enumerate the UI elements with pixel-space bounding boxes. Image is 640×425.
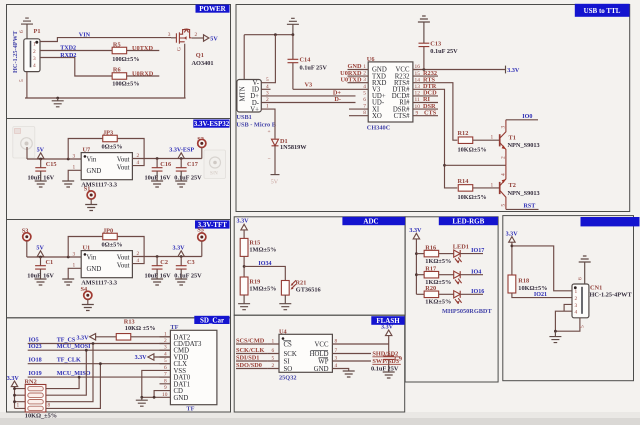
svg-text:HOLD: HOLD	[310, 351, 329, 358]
capacitor C13	[418, 16, 441, 70]
svg-text:Vin: Vin	[87, 157, 97, 164]
wire VCC to 3.3V	[413, 69, 506, 71]
svg-text:10KΩ ±5%: 10KΩ ±5%	[125, 325, 156, 332]
svg-text:MTN: MTN	[240, 86, 247, 101]
power port 3.3V bar	[506, 66, 520, 75]
svg-text:GND: GND	[174, 395, 189, 402]
svg-text:15: 15	[415, 71, 421, 77]
svg-text:R18: R18	[518, 277, 529, 284]
svg-text:R14: R14	[458, 178, 470, 185]
svg-text:3: 3	[501, 126, 507, 129]
pad S1	[84, 186, 95, 205]
wire Q1 out to 5V	[192, 37, 204, 39]
C1 value	[27, 273, 54, 280]
svg-text:5V: 5V	[210, 37, 218, 43]
svg-text:0.1uF 25V: 0.1uF 25V	[371, 365, 399, 372]
power 3.3V arrow	[173, 245, 186, 256]
svg-text:U7: U7	[83, 147, 91, 154]
section box POWER	[7, 5, 231, 119]
resistor R5	[112, 41, 127, 53]
power 3.3V-ESP arrow	[169, 147, 194, 158]
svg-text:9: 9	[416, 110, 419, 116]
svg-text:C14: C14	[300, 57, 312, 64]
LED blue	[439, 291, 483, 304]
svg-text:WP: WP	[318, 358, 328, 365]
svg-text:SDI/SD1: SDI/SD1	[236, 355, 259, 362]
junction CD/GND	[153, 396, 156, 399]
wire R18 to IO21 row	[512, 293, 572, 298]
svg-text:6: 6	[363, 97, 366, 103]
svg-text:R5: R5	[113, 41, 121, 48]
svg-text:U4: U4	[279, 328, 288, 335]
svg-text:R6: R6	[113, 67, 121, 74]
ground under C3	[175, 279, 187, 285]
power 5V arrow	[204, 35, 219, 43]
capacitor C16	[152, 159, 171, 182]
faded pad photo left	[13, 127, 35, 159]
svg-text:−: −	[268, 156, 271, 162]
svg-text:USB - Micro B: USB - Micro B	[236, 121, 276, 128]
svg-text:TF_CLK: TF_CLK	[57, 358, 81, 364]
svg-text:3.3V: 3.3V	[409, 228, 422, 234]
svg-text:4: 4	[164, 352, 167, 358]
rail wire	[27, 256, 81, 258]
svg-text:GT36516: GT36516	[296, 287, 321, 294]
svg-text:R20: R20	[425, 285, 436, 292]
resistor R21 photoresistor	[281, 280, 296, 295]
svg-text:U6: U6	[367, 56, 375, 63]
svg-text:GND: GND	[314, 366, 329, 373]
junction 3.3V	[511, 245, 514, 248]
ground under S4	[82, 305, 94, 311]
C15 value	[28, 175, 55, 182]
title bar SD_Car	[194, 316, 229, 325]
pin1 stub + number	[68, 165, 81, 181]
svg-text:MHP5050RGBDT: MHP5050RGBDT	[442, 308, 492, 315]
regulator U1	[81, 251, 132, 278]
svg-text:3: 3	[73, 252, 76, 258]
svg-text:10KΩ±5%: 10KΩ±5%	[518, 285, 547, 292]
RN2 left wires	[15, 389, 26, 409]
svg-text:5: 5	[501, 204, 507, 207]
wire R13 to pin1	[131, 336, 171, 338]
port SWP/SD3	[344, 358, 401, 365]
svg-text:R21: R21	[296, 279, 307, 286]
wire R12 to T1 base	[473, 139, 500, 141]
svg-text:CTS: CTS	[424, 109, 437, 116]
wire top rail	[244, 35, 293, 80]
capacitor C1	[35, 257, 53, 279]
svg-text:4: 4	[575, 310, 578, 316]
junction R17	[415, 273, 418, 276]
pad S2	[197, 136, 206, 159]
svg-text:R17: R17	[425, 266, 436, 273]
wire 3.3V to pin1	[512, 246, 572, 291]
wire R15 to junction	[243, 256, 245, 277]
title bar ADC	[342, 217, 405, 226]
svg-text:1MΩ±5%: 1MΩ±5%	[249, 247, 276, 254]
wire TXD2 pin2 to R5	[40, 50, 112, 52]
power 3.3V left arrow	[76, 334, 95, 342]
svg-text:3.3V: 3.3V	[173, 245, 186, 251]
USB1 pin numbers	[266, 77, 269, 109]
capacitor C17	[176, 159, 198, 182]
pin5 wire	[555, 318, 580, 331]
section box LED-RGB	[405, 217, 498, 382]
svg-text:3: 3	[335, 356, 338, 362]
wire RTS down to R12	[438, 83, 457, 141]
svg-text:3: 3	[168, 32, 171, 38]
section box SD_Car	[7, 318, 231, 412]
power 5V arrow	[36, 246, 44, 257]
capacitor C3	[176, 257, 195, 280]
C2 value	[145, 273, 172, 280]
wire RXD2 pin3 to R6	[40, 58, 112, 77]
svg-text:SCK/CLK: SCK/CLK	[236, 347, 264, 354]
svg-text:2: 2	[137, 251, 140, 257]
svg-text:2: 2	[164, 338, 167, 344]
svg-text:6: 6	[272, 348, 275, 354]
wire MCU_MOSI row	[28, 349, 171, 351]
svg-text:5: 5	[19, 79, 25, 82]
svg-text:1: 1	[33, 41, 36, 47]
title bar LED-RGB	[439, 217, 498, 226]
section box 3.3V-ESP32	[7, 119, 231, 220]
title bar USB to TTL	[575, 4, 630, 17]
svg-text:3.3V-ESP32: 3.3V-ESP32	[194, 120, 230, 128]
chip U4 25Q32	[279, 334, 332, 373]
resistor R14	[458, 178, 473, 191]
svg-text:LED-RGB: LED-RGB	[452, 218, 484, 226]
junction C2	[156, 255, 159, 258]
svg-text:3.3V: 3.3V	[507, 68, 520, 74]
svg-text:5: 5	[363, 90, 366, 96]
ground top of P1	[21, 18, 33, 39]
wire IO34 to R21	[244, 266, 285, 280]
ground top of CN1 pin6	[579, 256, 591, 284]
transistor T1 NPN_S9013	[500, 120, 507, 166]
wire IO0	[506, 119, 538, 121]
capacitor C14	[288, 35, 312, 90]
svg-text:3.3V: 3.3V	[135, 355, 148, 361]
svg-text:5: 5	[272, 356, 275, 362]
junction MOSI pullup	[85, 349, 88, 352]
rail wire	[27, 158, 81, 160]
svg-text:XO: XO	[372, 113, 382, 120]
junction C14	[292, 33, 295, 36]
svg-text:3: 3	[73, 154, 76, 160]
junction VSS/GND	[140, 396, 143, 399]
svg-text:CN1: CN1	[590, 285, 602, 292]
svg-text:2: 2	[137, 153, 140, 159]
pad S4	[81, 286, 92, 304]
output rail	[144, 250, 202, 257]
svg-text:V+: V+	[250, 106, 259, 113]
svg-text:6: 6	[578, 277, 584, 280]
jumper JP0 loop	[68, 237, 144, 258]
svg-text:NPN_S9013: NPN_S9013	[508, 190, 540, 197]
svg-text:5V: 5V	[271, 180, 279, 186]
port SCK/CLK	[236, 347, 267, 354]
svg-text:RXD2: RXD2	[60, 53, 76, 59]
junction C3	[180, 255, 183, 258]
port GND pin1	[348, 63, 362, 70]
wire CD down	[154, 391, 159, 398]
svg-text:2: 2	[363, 71, 366, 77]
LED green	[439, 271, 483, 284]
svg-text:SI: SI	[284, 358, 291, 365]
U4 right pin stubs	[332, 339, 344, 370]
title bar POWER	[196, 5, 230, 14]
svg-text:1: 1	[73, 263, 76, 269]
junction C17	[180, 157, 183, 160]
section box 3.3V-TFT	[7, 220, 231, 318]
svg-text:SCK: SCK	[284, 351, 297, 358]
svg-text:13: 13	[415, 84, 421, 90]
svg-text:1N5819W: 1N5819W	[280, 144, 307, 151]
svg-text:8: 8	[363, 110, 366, 116]
svg-text:IO23: IO23	[29, 344, 42, 350]
title bar right edge	[581, 217, 640, 226]
capacitor C9	[383, 344, 402, 372]
junction CS pullup	[92, 342, 95, 345]
junction C13	[423, 68, 426, 71]
resistor R12	[458, 130, 473, 143]
faded pad photo right	[204, 150, 226, 179]
svg-text:USB1: USB1	[236, 114, 251, 121]
svg-text:2: 2	[272, 363, 275, 369]
svg-text:3: 3	[363, 77, 366, 83]
title bar 3.3V-ESP32	[193, 120, 229, 129]
wire R14 to T2 base	[473, 187, 500, 189]
ground under C15	[35, 181, 47, 187]
ground top left	[287, 18, 299, 34]
svg-text:JP0: JP0	[103, 228, 113, 235]
svg-text:1MΩ±5%: 1MΩ±5%	[249, 285, 276, 292]
resistor R13	[116, 334, 131, 341]
capacitor C15	[35, 159, 56, 181]
svg-text:IO19: IO19	[29, 371, 42, 377]
wire pin3 pin4 to ground	[555, 304, 572, 331]
svg-text:IO4: IO4	[471, 269, 481, 275]
wire bottom rail	[25, 97, 186, 99]
svg-text:3: 3	[33, 56, 36, 62]
power 3.3V arrow RN2	[7, 376, 20, 408]
svg-text:3: 3	[575, 303, 578, 309]
connector CN1	[572, 284, 589, 318]
right pin rows 15..9	[413, 70, 438, 117]
junction IO34	[243, 265, 246, 268]
junction C16	[156, 157, 159, 160]
diode D1	[268, 129, 279, 175]
output rail	[144, 158, 202, 160]
svg-text:1KΩ±5%: 1KΩ±5%	[425, 299, 451, 306]
svg-text:12: 12	[415, 91, 421, 97]
svg-text:POWER: POWER	[199, 5, 226, 13]
svg-text:IO5: IO5	[29, 337, 39, 343]
svg-text:100Ω±5%: 100Ω±5%	[112, 81, 139, 88]
wire V+ down to D1	[261, 109, 275, 139]
wire TF_CLK row	[28, 363, 171, 365]
svg-text:TF_CS: TF_CS	[57, 337, 76, 343]
svg-text:3.3V: 3.3V	[7, 376, 20, 382]
svg-text:3.3V: 3.3V	[381, 324, 394, 330]
resistor R6	[112, 67, 127, 80]
svg-text:2: 2	[33, 49, 36, 55]
svg-text:U0TXD: U0TXD	[341, 76, 362, 83]
junction JP3 branch	[67, 158, 70, 161]
transistor T2 NPN_S9013	[500, 165, 507, 209]
ground under C9	[383, 372, 395, 378]
U4 left pin stubs	[267, 339, 279, 370]
wire Q1 gate down	[184, 44, 186, 98]
svg-text:Vout: Vout	[117, 165, 130, 172]
svg-text:10KΩ_±5%: 10KΩ_±5%	[25, 413, 57, 420]
svg-text:GND: GND	[87, 266, 102, 273]
svg-text:1: 1	[17, 403, 20, 409]
svg-text:SD_Car: SD_Car	[200, 317, 224, 325]
junction R16	[415, 252, 418, 255]
chip U6 CH340C	[368, 62, 413, 122]
ground under S1	[85, 205, 97, 211]
svg-text:U0RXD: U0RXD	[132, 70, 154, 77]
port SHD/SD2	[344, 351, 401, 358]
pin2/pin4 stubs	[132, 251, 144, 264]
U6 right pin stubs/numbers	[413, 64, 420, 70]
port U0RXD pin2	[340, 70, 362, 77]
svg-text:C15: C15	[46, 161, 57, 168]
wire VIN from pin1	[40, 38, 171, 42]
ground under C16	[151, 181, 163, 187]
svg-text:T1: T1	[509, 134, 516, 141]
ground TF	[136, 397, 148, 406]
connector P1	[24, 39, 40, 72]
svg-text:IO21: IO21	[534, 292, 547, 298]
pin1 stub + number	[68, 263, 81, 279]
svg-text:LED1: LED1	[453, 244, 469, 251]
ground under R21	[279, 304, 291, 310]
svg-text:HC-1.25-4PWT: HC-1.25-4PWT	[590, 292, 633, 299]
svg-text:6: 6	[164, 365, 167, 371]
svg-text:2: 2	[501, 156, 507, 159]
power 3.3V left arrow VDD	[135, 354, 171, 361]
wire RST	[506, 208, 539, 210]
wire R5 to U0TXD	[127, 50, 160, 52]
U6 left pin stubs	[349, 64, 368, 116]
svg-text:IO16: IO16	[471, 289, 484, 295]
power 3.3V arrow	[506, 231, 519, 275]
junction DTR node	[443, 164, 446, 167]
wire DTR down	[438, 89, 457, 188]
svg-text:C3: C3	[187, 259, 195, 266]
svg-text:25Q32: 25Q32	[279, 374, 297, 381]
svg-text:4: 4	[33, 63, 36, 69]
resistor JP3	[103, 130, 118, 142]
junction	[39, 256, 42, 259]
svg-text:U1: U1	[83, 245, 91, 252]
svg-text:C2: C2	[160, 259, 168, 266]
svg-text:1: 1	[575, 289, 578, 295]
svg-text:+: +	[268, 129, 271, 135]
svg-text:S/N: S/N	[210, 172, 218, 177]
svg-text:IO0: IO0	[522, 114, 532, 120]
svg-text:Vout: Vout	[117, 157, 130, 164]
port SCS/CMD	[236, 338, 267, 345]
title bar FLASH	[371, 316, 404, 325]
jumper JP3 loop	[68, 139, 144, 160]
svg-text:R12: R12	[458, 130, 469, 137]
svg-text:Q1: Q1	[196, 52, 204, 59]
svg-text:C16: C16	[160, 161, 171, 168]
C16 value	[145, 175, 172, 182]
svg-text:8: 8	[48, 403, 51, 409]
svg-text:HC-1.25-4PWT: HC-1.25-4PWT	[12, 30, 19, 73]
junction ground	[554, 330, 557, 333]
RN2 right wires to signal rows	[46, 344, 101, 409]
svg-text:4: 4	[137, 160, 140, 166]
svg-text:3.3V-ESP: 3.3V-ESP	[169, 147, 194, 153]
wire R6 to U0RXD	[127, 75, 160, 77]
junction	[39, 158, 42, 161]
svg-text:14: 14	[415, 77, 421, 83]
TF pin stubs and numbers	[160, 331, 171, 398]
port SDI/SD1	[236, 355, 267, 362]
svg-text:NPN_S9013: NPN_S9013	[508, 142, 540, 149]
svg-text:RST: RST	[524, 204, 536, 210]
resistor R19	[240, 277, 260, 295]
svg-text:SDO/SD0: SDO/SD0	[236, 362, 262, 369]
power 5V arrow	[37, 148, 45, 159]
regulator U7	[81, 153, 132, 180]
resistor R18	[508, 275, 529, 293]
svg-text:R15: R15	[249, 240, 260, 247]
svg-text:USB to TTL: USB to TTL	[584, 7, 621, 15]
svg-text:0Ω±5%: 0Ω±5%	[102, 143, 123, 150]
svg-text:G: G	[177, 47, 183, 51]
ground under pin1	[62, 279, 74, 285]
power 3.3V arrow	[409, 228, 422, 294]
svg-text:4: 4	[501, 173, 507, 176]
junction	[56, 97, 59, 100]
svg-text:1: 1	[491, 182, 494, 188]
svg-text:SO: SO	[284, 366, 293, 373]
svg-text:TXD2: TXD2	[60, 46, 76, 52]
wire 3.3V to R13	[96, 336, 117, 338]
svg-text:100Ω±5%: 100Ω±5%	[112, 56, 139, 63]
svg-text:1: 1	[272, 339, 275, 345]
resistor network RN2	[25, 385, 46, 413]
svg-text:10: 10	[162, 392, 168, 398]
svg-text:4: 4	[363, 84, 366, 90]
wire VCC to 3.3V	[344, 343, 389, 345]
ground CN1	[549, 331, 561, 342]
svg-text:7: 7	[164, 372, 167, 378]
resistor R17	[416, 266, 438, 278]
connector TF	[170, 330, 217, 404]
section box FLASH	[234, 315, 405, 412]
wire R21 to ground	[284, 295, 286, 304]
svg-text:2: 2	[195, 32, 198, 38]
port U0TXD pin3	[341, 76, 362, 83]
svg-text:0.1uF 25V: 0.1uF 25V	[300, 65, 328, 72]
resistor R15	[240, 238, 260, 256]
section box CN1 area	[503, 216, 634, 381]
wire MCU_MISO row	[28, 376, 171, 378]
wire V3	[293, 88, 356, 90]
resistor R20	[416, 285, 438, 297]
svg-text:3: 3	[164, 345, 167, 351]
pin2/pin4 stubs	[132, 153, 144, 166]
